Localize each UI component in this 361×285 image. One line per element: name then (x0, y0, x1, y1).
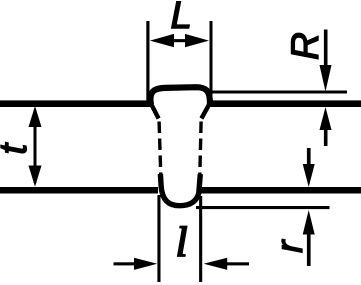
weld cap bead (150, 87, 210, 104)
dim r lower arrowhead (303, 210, 315, 235)
dim R lower arrow line (324, 126, 328, 146)
dim r lower arrow line (307, 233, 311, 266)
dim l extension line left (157, 195, 160, 282)
dim R lower arrowhead (320, 107, 332, 130)
dim l extension line right (199, 196, 202, 282)
dim l left arrow line (114, 262, 136, 265)
dim t arrow line (34, 110, 37, 183)
dim l right arrow line (227, 262, 250, 265)
label r (282, 239, 302, 252)
dim l right arrowhead (204, 258, 228, 270)
dim R upper arrowhead (320, 65, 332, 92)
weld root bead (160, 174, 200, 206)
dim L arrowhead right (185, 34, 209, 47)
plate top-right (210, 100, 361, 107)
dim r upper arrowhead (303, 164, 315, 187)
dim R extension line (210, 91, 347, 94)
weld cap left flare (151, 104, 159, 119)
plate bottom-right (199, 187, 361, 194)
dim L arrow line (170, 39, 189, 42)
label l (178, 227, 187, 256)
dim r upper arrow line (307, 148, 311, 166)
dim r extension line (196, 206, 330, 209)
dim L arrowhead left (150, 34, 174, 47)
dim L extension line right (210, 21, 213, 106)
dim L extension line left (146, 21, 149, 102)
plate bottom-left (0, 187, 158, 194)
weld side dashed right (200, 122, 201, 177)
label L (172, 2, 189, 28)
label R (291, 33, 318, 58)
dim R upper arrow line (324, 30, 328, 68)
dim l left arrowhead (134, 258, 157, 270)
dim t upper arrowhead (29, 106, 42, 127)
weld cap right flare (201, 104, 209, 119)
dim t lower arrowhead (29, 166, 42, 187)
plate top-left (0, 100, 152, 107)
weld side dashed left (159, 122, 161, 177)
label t (1, 142, 26, 152)
